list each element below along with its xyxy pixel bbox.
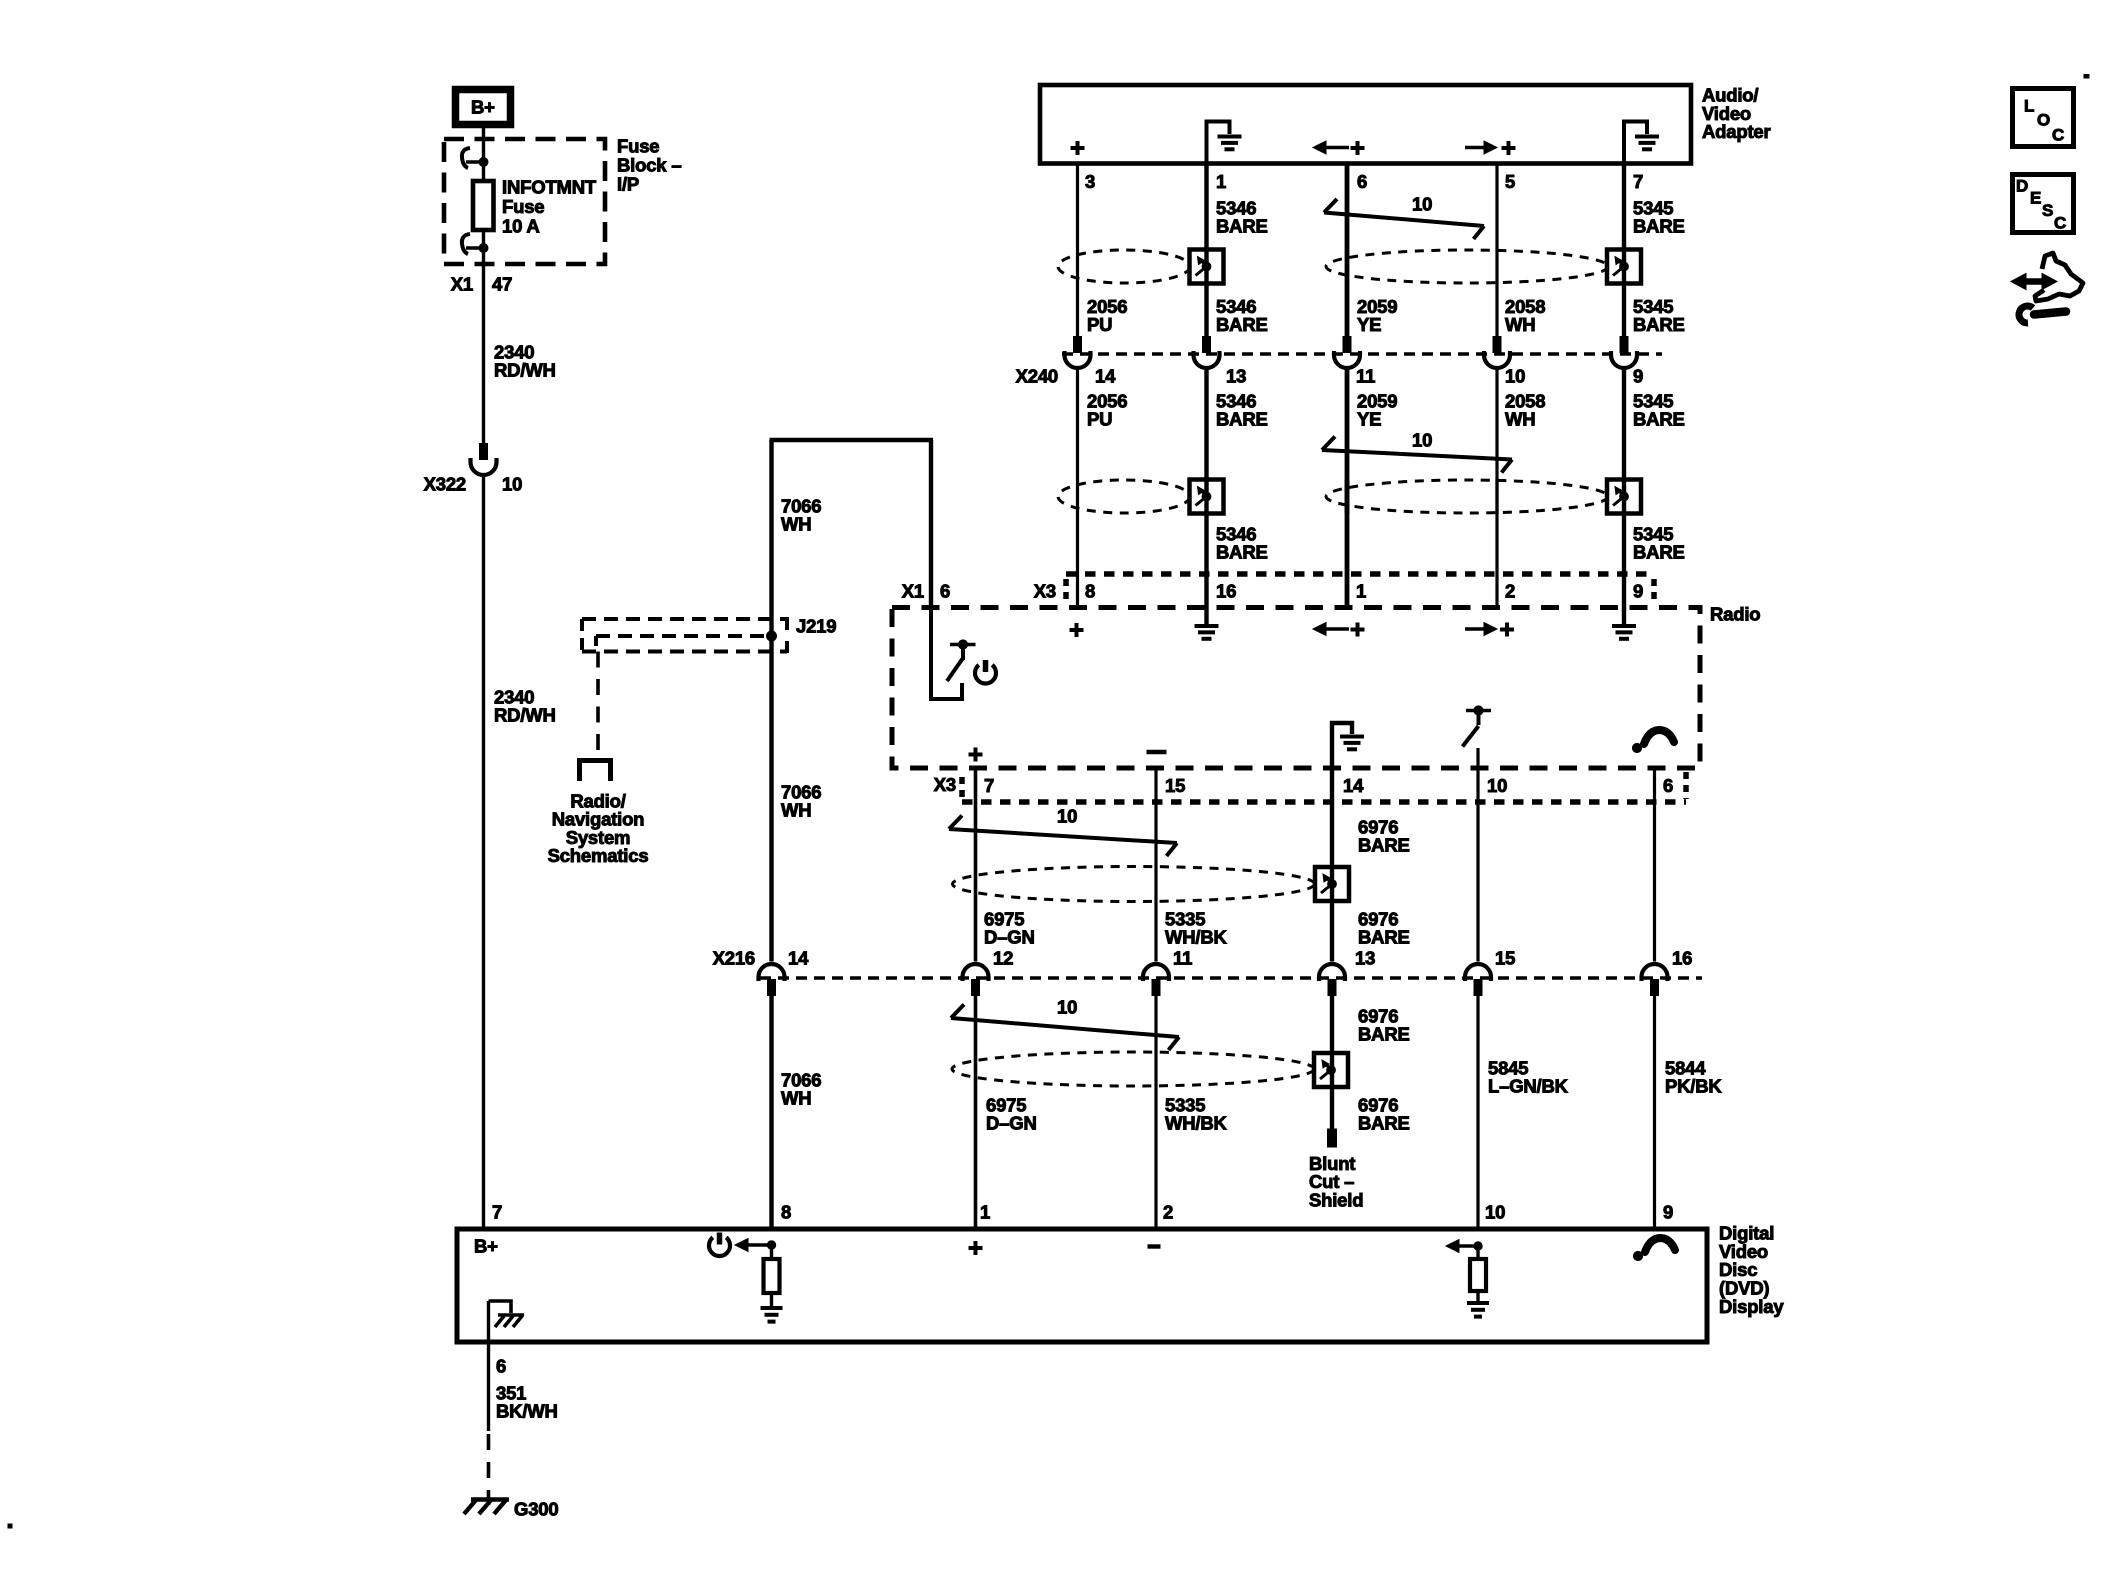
wires X216 to DVD bbox=[769, 995, 773, 1229]
wire 7066 WH main run bbox=[769, 440, 773, 962]
svg-text:S: S bbox=[2042, 201, 2053, 220]
shield ellipse row 2 left bbox=[1058, 480, 1190, 513]
svg-text:BARE: BARE bbox=[1216, 314, 1268, 335]
svg-text:8: 8 bbox=[781, 1201, 791, 1222]
shield ellipse row 2 right bbox=[1326, 480, 1608, 513]
shield drain box row 1 col5 bbox=[1607, 250, 1641, 284]
wire 6976 BARE to blunt cut bbox=[1330, 995, 1334, 1130]
wires AV box to X240 bbox=[1076, 164, 1079, 338]
svg-text:BARE: BARE bbox=[1358, 927, 1410, 948]
svg-text:10: 10 bbox=[1412, 429, 1432, 450]
svg-text:7: 7 bbox=[1633, 171, 1643, 192]
connector X216 bbox=[760, 976, 1702, 980]
svg-text:D–GN: D–GN bbox=[984, 927, 1035, 948]
twisted-pair symbol 10 (row 4) bbox=[951, 1005, 964, 1019]
DESC legend box bbox=[2013, 175, 2074, 233]
svg-text:9: 9 bbox=[1633, 365, 1643, 386]
svg-text:D–GN: D–GN bbox=[986, 1113, 1037, 1134]
connector X3 top row bbox=[1066, 571, 1654, 577]
shield drain box row 2 col2 bbox=[1190, 480, 1224, 514]
svg-text:14: 14 bbox=[1343, 775, 1364, 796]
svg-text:14: 14 bbox=[788, 947, 809, 968]
AV internal: ground (pin 1) bbox=[1207, 122, 1230, 164]
radio internal: ground (pin 14) bbox=[1332, 723, 1352, 768]
twisted-pair symbol 10 (row 1) bbox=[1324, 199, 1337, 213]
svg-text:BARE: BARE bbox=[1358, 1113, 1410, 1134]
svg-text:10: 10 bbox=[1487, 775, 1507, 796]
splice J219 bbox=[582, 617, 787, 621]
svg-text:YE: YE bbox=[1357, 409, 1381, 430]
blunt cut stub bbox=[1328, 1129, 1337, 1147]
svg-text:BARE: BARE bbox=[1358, 835, 1410, 856]
Fuse Block - I/P dashed box bbox=[444, 139, 605, 264]
svg-text:X240: X240 bbox=[1016, 365, 1058, 386]
AV internal: arrow-right + (pin 5) bbox=[1465, 146, 1484, 150]
svg-text:9: 9 bbox=[1663, 1201, 1673, 1222]
svg-text:J219: J219 bbox=[796, 615, 836, 636]
svg-text:BARE: BARE bbox=[1216, 542, 1268, 563]
shield drain box row 2 col5 bbox=[1607, 480, 1641, 514]
svg-text:10: 10 bbox=[1057, 805, 1077, 826]
dashed branch to Radio/Navigation System Schematics bbox=[596, 652, 600, 758]
Digital Video Disc (DVD) Display box bbox=[457, 1229, 1707, 1342]
svg-text:6: 6 bbox=[496, 1355, 506, 1376]
svg-text:47: 47 bbox=[492, 273, 512, 294]
svg-text:WH: WH bbox=[781, 800, 811, 821]
svg-text:PU: PU bbox=[1087, 314, 1112, 335]
DVD internal: resistor to ground (pin 8) bbox=[770, 1245, 773, 1259]
svg-text:Schematics: Schematics bbox=[548, 845, 649, 866]
svg-text:PK/BK: PK/BK bbox=[1665, 1076, 1722, 1097]
svg-text:BARE: BARE bbox=[1633, 216, 1685, 237]
svg-text:11: 11 bbox=[1356, 365, 1375, 386]
svg-text:1: 1 bbox=[980, 1201, 990, 1222]
svg-text:14: 14 bbox=[1095, 365, 1116, 386]
svg-text:13: 13 bbox=[1226, 365, 1246, 386]
twisted-pair symbol 10 (row 2) bbox=[1322, 437, 1335, 451]
svg-text:7: 7 bbox=[492, 1201, 502, 1222]
svg-text:B+: B+ bbox=[471, 96, 495, 117]
DVD internal: power icon + arrow (pin 8) bbox=[709, 1237, 730, 1256]
svg-text:6: 6 bbox=[1357, 171, 1367, 192]
svg-text:X1: X1 bbox=[902, 580, 924, 601]
svg-text:Adapter: Adapter bbox=[1702, 121, 1771, 142]
AV internal: arrow-left + (pin 6) bbox=[1326, 146, 1349, 150]
svg-text:D: D bbox=[2016, 176, 2028, 195]
svg-text:E: E bbox=[2030, 188, 2041, 207]
legend icon: double arrow, jump arrow, wrench bbox=[2024, 278, 2044, 285]
radio internal: + (pin 8) bbox=[1070, 628, 1084, 632]
radio internal: power switch (X1-6) bbox=[931, 608, 962, 700]
svg-text:7: 7 bbox=[984, 775, 994, 796]
shield drain box row 3 bbox=[1315, 867, 1349, 901]
svg-text:C: C bbox=[2054, 213, 2066, 232]
svg-text:BARE: BARE bbox=[1633, 314, 1685, 335]
svg-text:15: 15 bbox=[1165, 775, 1185, 796]
off-page connector symbol bbox=[577, 758, 613, 763]
shield ellipse row 3 bbox=[953, 867, 1315, 902]
Audio/Video Adapter box bbox=[1040, 85, 1691, 164]
connector X240 bbox=[1062, 352, 1662, 356]
svg-text:11: 11 bbox=[1173, 947, 1192, 968]
svg-text:Block –: Block – bbox=[617, 154, 681, 175]
svg-text:15: 15 bbox=[1495, 947, 1515, 968]
svg-text:16: 16 bbox=[1216, 580, 1236, 601]
svg-text:5: 5 bbox=[1505, 171, 1515, 192]
twisted-pair symbol 10 (row 3) bbox=[949, 816, 962, 830]
svg-text:Radio: Radio bbox=[1710, 603, 1760, 624]
shield drain box row 4 bbox=[1314, 1053, 1348, 1087]
svg-text:WH: WH bbox=[781, 1088, 811, 1109]
svg-text:L: L bbox=[2024, 96, 2034, 115]
fuse holder clip bottom bbox=[462, 234, 470, 254]
svg-text:9: 9 bbox=[1633, 580, 1643, 601]
wires X240 to radio bbox=[1076, 368, 1079, 608]
radio internal: arrow-left + (pin 1) bbox=[1326, 627, 1349, 631]
svg-text:G300: G300 bbox=[514, 1498, 558, 1519]
svg-text:Display: Display bbox=[1719, 1296, 1784, 1317]
svg-text:BARE: BARE bbox=[1633, 409, 1685, 430]
ground G300 bbox=[471, 1497, 509, 1501]
DVD internal: + (pin 1) bbox=[969, 1246, 983, 1250]
AV internal: + (pin 3) bbox=[1071, 146, 1085, 150]
svg-text:INFOTMNT: INFOTMNT bbox=[502, 176, 597, 197]
svg-text:X1: X1 bbox=[451, 273, 473, 294]
wire: B+ to fuse bbox=[482, 124, 485, 444]
svg-text:WH: WH bbox=[1505, 314, 1535, 335]
svg-text:13: 13 bbox=[1355, 947, 1375, 968]
svg-text:WH: WH bbox=[1505, 409, 1535, 430]
svg-text:3: 3 bbox=[1085, 171, 1095, 192]
svg-text:BARE: BARE bbox=[1216, 409, 1268, 430]
svg-text:Shield: Shield bbox=[1309, 1190, 1363, 1211]
shield ellipse row 4 bbox=[952, 1052, 1314, 1086]
svg-text:C: C bbox=[2052, 125, 2064, 144]
svg-text:6: 6 bbox=[940, 580, 950, 601]
svg-text:Fuse: Fuse bbox=[502, 196, 544, 217]
svg-text:1: 1 bbox=[1356, 580, 1366, 601]
svg-text:L–GN/BK: L–GN/BK bbox=[1488, 1076, 1569, 1097]
svg-text:10: 10 bbox=[1057, 996, 1077, 1017]
svg-text:2: 2 bbox=[1505, 580, 1515, 601]
svg-text:RD/WH: RD/WH bbox=[494, 705, 556, 726]
svg-text:I/P: I/P bbox=[617, 173, 639, 194]
radio internal: arrow-right + (pin 2) bbox=[1465, 627, 1484, 631]
shield ellipse row 1 right bbox=[1326, 250, 1608, 283]
svg-text:X216: X216 bbox=[713, 947, 755, 968]
fuse INFOTMNT 10 A bbox=[473, 181, 494, 230]
svg-text:BARE: BARE bbox=[1216, 216, 1268, 237]
svg-text:RD/WH: RD/WH bbox=[494, 360, 556, 381]
radio internal: power icon bbox=[975, 665, 996, 684]
svg-text:10: 10 bbox=[1485, 1201, 1505, 1222]
svg-text:6: 6 bbox=[1663, 775, 1673, 796]
svg-text:X3: X3 bbox=[1034, 580, 1056, 601]
radio internal: + (pin 7) bbox=[969, 753, 983, 757]
svg-text:BARE: BARE bbox=[1633, 542, 1685, 563]
svg-text:X322: X322 bbox=[424, 473, 466, 494]
svg-text:WH/BK: WH/BK bbox=[1165, 1113, 1228, 1134]
DVD internal: arrow + resistor (pin 10) bbox=[1459, 1244, 1478, 1248]
LOC legend box bbox=[2013, 89, 2074, 147]
svg-text:12: 12 bbox=[993, 947, 1013, 968]
svg-text:YE: YE bbox=[1357, 314, 1381, 335]
svg-text:10: 10 bbox=[1505, 365, 1525, 386]
svg-text:WH/BK: WH/BK bbox=[1165, 927, 1228, 948]
svg-text:BARE: BARE bbox=[1358, 1024, 1410, 1045]
radio internal: ground (pin 16) bbox=[1204, 608, 1208, 625]
svg-text:16: 16 bbox=[1672, 947, 1692, 968]
DVD internal: - (pin 2) bbox=[1148, 1244, 1161, 1248]
svg-text:PU: PU bbox=[1087, 409, 1112, 430]
svg-text:BK/WH: BK/WH bbox=[496, 1401, 558, 1422]
svg-text:1: 1 bbox=[1216, 171, 1226, 192]
svg-text:10 A: 10 A bbox=[502, 216, 540, 237]
radio internal: handset (pin 6) bbox=[1644, 730, 1674, 744]
connector X3 bottom row bbox=[962, 799, 1686, 805]
Radio box (dashed) bbox=[892, 608, 1700, 769]
svg-text:8: 8 bbox=[1085, 580, 1095, 601]
radio internal: ground (pin 9) bbox=[1622, 608, 1626, 625]
radio internal: - (pin 15) bbox=[1147, 750, 1167, 754]
shield ellipse row 1 left bbox=[1058, 250, 1190, 283]
shield drain box row 1 col2 bbox=[1190, 250, 1224, 284]
svg-text:WH: WH bbox=[781, 514, 811, 535]
wires radio to X216 bbox=[974, 768, 978, 962]
fuse holder clip top bbox=[462, 148, 470, 168]
svg-text:O: O bbox=[2037, 110, 2050, 129]
svg-text:Fuse: Fuse bbox=[617, 135, 659, 156]
AV internal: ground (pin 7) bbox=[1624, 122, 1647, 164]
svg-text:10: 10 bbox=[1412, 193, 1432, 214]
svg-text:B+: B+ bbox=[474, 1235, 498, 1256]
svg-text:10: 10 bbox=[502, 473, 522, 494]
svg-text:X3: X3 bbox=[934, 774, 956, 795]
page artifact marks bbox=[2084, 75, 2089, 79]
wire 2340 RD/WH lower bbox=[482, 475, 485, 1229]
radio internal: switch (pin 10) bbox=[1466, 709, 1491, 713]
DVD internal: chassis ground (pin 6) bbox=[487, 1301, 490, 1342]
B+ battery feed symbol bbox=[456, 90, 511, 125]
DVD internal: handset (pin 9) bbox=[1645, 1238, 1675, 1252]
svg-text:2: 2 bbox=[1163, 1201, 1173, 1222]
in-line connector X322 pin 10 bbox=[480, 444, 488, 460]
